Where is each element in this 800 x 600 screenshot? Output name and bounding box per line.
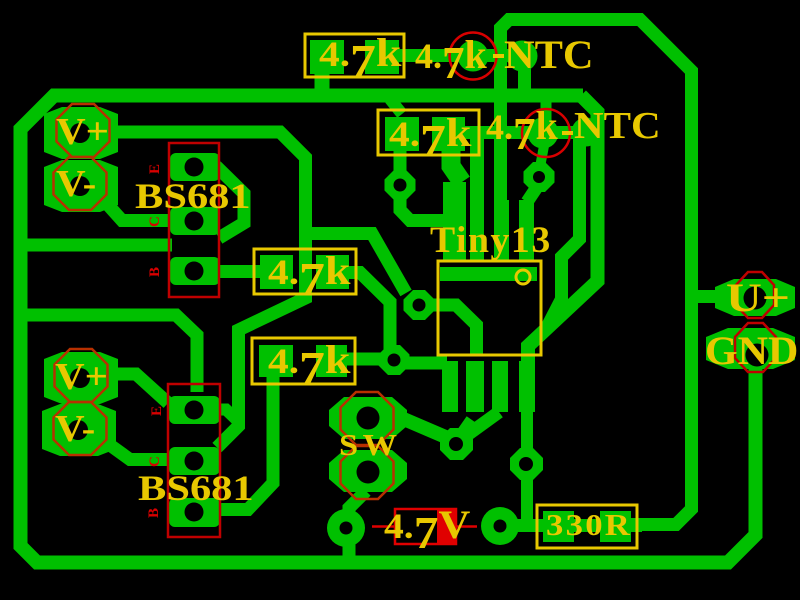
pad Tiny13 bar B from NTC2 horizontal <box>470 133 484 261</box>
pad SW 2 octagon <box>329 450 407 492</box>
pad GND octagon <box>706 328 795 369</box>
wire E1-C1 U loop <box>216 166 244 238</box>
svg-text:BS681: BS681 <box>138 468 254 508</box>
wire U+ riser branch to U+ pad <box>689 290 718 303</box>
pad NTC2 k <box>528 118 559 149</box>
wire ground/border ring top+left+bottom+right <box>21 96 756 563</box>
wire V+ top chain: pad to long vertical to C2 pad <box>110 132 306 448</box>
pad BS681#2 B <box>169 498 220 527</box>
wire V-2 tail to C2 pad <box>103 440 172 460</box>
outline SW2 red octagon <box>341 446 394 499</box>
svg-text:U+: U+ <box>726 275 790 319</box>
wire via2 arm to bar1 <box>404 357 447 370</box>
via V2 under R4 <box>379 345 410 375</box>
wire NTC2 pad2b chain down to S-bend diagonal <box>546 135 580 329</box>
via V6 left of Tiny13 <box>404 290 435 320</box>
pad R1 left <box>310 40 344 74</box>
pad R3 left <box>260 255 293 289</box>
wire V-1 tail to C1 pad <box>100 196 173 221</box>
wire R3 right pad chain down to via2 <box>349 273 390 351</box>
outline V+2 red octagon <box>55 349 108 402</box>
pad Tiny13 interior pin row bar <box>440 267 537 281</box>
wire chain from V+ vertical to via6 <box>305 234 406 294</box>
outline V-2 red octagon <box>54 402 107 455</box>
outline SW1 red octagon <box>341 392 394 445</box>
svg-text:V-: V- <box>55 407 95 449</box>
wire via1 arm to Tiny13 bar A <box>400 196 447 221</box>
hole via V5 <box>519 457 533 471</box>
wire E2 pad stub to V+ chain <box>218 410 239 422</box>
pad R2 left <box>385 117 419 151</box>
hole BS681#2 C <box>185 452 204 471</box>
outline zener D1 body <box>395 509 456 544</box>
pad 330R right <box>600 511 631 542</box>
hole via V3 <box>449 437 463 451</box>
svg-text:NTC: NTC <box>574 104 661 146</box>
pad V- connector 1 octagon <box>44 160 118 212</box>
pad Tiny13 bar D <box>519 200 534 261</box>
hole GND <box>746 344 769 367</box>
hole via V2 <box>388 354 401 367</box>
via V4 under NTC2 <box>524 162 555 192</box>
wire R4 left pad chain down to B2 pad <box>220 376 273 510</box>
svg-text:V-: V- <box>56 162 96 204</box>
svg-text:C: C <box>147 216 163 227</box>
pad R1 right <box>365 40 399 74</box>
hole U+ <box>744 287 767 310</box>
pad Tiny13 bar A <box>443 182 466 261</box>
hole BS681#1 E <box>185 158 204 177</box>
wire border right-top branch to Tiny13 pin 7 via S-bend <box>528 96 598 366</box>
wire R1 left pad stub down to border <box>315 72 330 95</box>
pad Tiny13 below-box bar0 <box>442 361 458 412</box>
outline IC U1 pin1 marker circle <box>516 270 530 284</box>
hole BS681#2 B <box>185 503 204 522</box>
wire net U+ : top rail from U+ riser <box>501 20 692 525</box>
svg-text:C: C <box>147 456 163 467</box>
outline V-1 red octagon <box>54 157 107 210</box>
via V5 above 330R <box>510 448 543 480</box>
wire via6 interior chain to below-box bar1 <box>433 305 477 356</box>
hole V+1 <box>70 123 90 143</box>
svg-text:GND: GND <box>705 328 798 373</box>
wire R2 left pad stub up to border <box>390 99 402 114</box>
outline NTC1 thermistor circle <box>450 33 497 80</box>
outline resistor R3 box <box>254 249 356 294</box>
pad V+ connector 1 octagon <box>44 107 118 159</box>
outline resistor R5 330R box <box>537 505 637 548</box>
outline transistor Q1 BS681 rectangle <box>169 143 219 297</box>
outline zener D1 cathode band <box>437 509 456 544</box>
svg-text:BS681: BS681 <box>135 176 251 216</box>
wire SW pad1 diagonal to via3 <box>392 414 448 438</box>
hole SW2 <box>357 461 380 484</box>
pad SW 1 octagon <box>329 397 407 439</box>
outline IC U1 Tiny13 box <box>438 261 541 355</box>
hole zener pad2 <box>494 520 507 533</box>
pad BS681#2 C <box>169 447 220 475</box>
wire bar3 to via5 <box>521 410 533 450</box>
pad NTC1 k <box>458 41 489 72</box>
pad R4 left <box>259 345 293 377</box>
wire V+2 tail to E2 pad <box>110 374 168 403</box>
hole zener pad1 <box>340 522 353 535</box>
hole BS681#1 C <box>185 212 204 231</box>
wire via3 diagonal to bar1 <box>456 420 472 443</box>
via V1 under R2 <box>385 170 416 200</box>
pad V+ connector 2 octagon <box>44 352 118 404</box>
pad V- connector 2 octagon <box>42 404 116 456</box>
pad 330R left <box>543 511 574 542</box>
outline transistor Q2 BS681 rectangle <box>168 384 220 537</box>
pad R2 right <box>432 117 465 151</box>
wire NTC2 pads connect R2 right pad <box>463 126 582 139</box>
pad NTC2 N <box>572 118 601 147</box>
pad Tiny13 below-box bar3 <box>519 361 535 412</box>
svg-text:E: E <box>147 164 163 174</box>
pad BS681#2 E <box>169 396 220 424</box>
wire NTC2 leader dash <box>562 131 573 135</box>
hole BS681#1 B <box>185 262 204 281</box>
pad NTC1 N <box>507 41 538 72</box>
wire zener pad2 horizontal to 330R left pad <box>490 519 642 532</box>
hole via V6 <box>413 299 426 312</box>
svg-text:B: B <box>147 267 163 277</box>
pad zener left round <box>327 509 365 547</box>
svg-text:B: B <box>146 508 162 518</box>
outline GND red octagon <box>735 323 776 372</box>
svg-text:V+: V+ <box>55 355 108 397</box>
hole V-1 <box>70 176 90 196</box>
wire via4 stub to Tiny13 bar D <box>527 184 539 202</box>
hole BS681#2 E <box>185 401 204 420</box>
pad Tiny13 bar C widening <box>494 200 509 261</box>
wire NTC2 pad1b connector down to via4 <box>540 146 544 167</box>
pad Tiny13 below-box bar1 <box>466 361 484 412</box>
hole via V4 <box>533 171 545 183</box>
pad U+ octagon <box>715 279 795 316</box>
wire via3 diagonal to bar2 <box>459 412 499 441</box>
wire zener D1 left lead <box>372 525 395 528</box>
outline V+1 red octagon <box>57 104 110 157</box>
pad BS681#1 C <box>170 207 220 235</box>
pad Tiny13 below-box bar2 <box>492 361 508 412</box>
svg-text:V+: V+ <box>56 110 109 152</box>
wire zener D1 right lead <box>456 525 477 528</box>
via V3 near SW <box>440 428 473 460</box>
wire B1 pad arm to R3 left pad <box>218 265 262 278</box>
svg-text:330R: 330R <box>546 509 632 543</box>
pad R4 right <box>316 345 347 377</box>
outline resistor R4 box <box>252 338 355 384</box>
pad zener right round <box>481 507 519 545</box>
outline NTC2 thermistor circle <box>522 109 570 157</box>
wire NTC1 leader dash <box>493 54 504 58</box>
wire border tee down to E2 pad <box>22 315 197 392</box>
outline resistor R2 box <box>378 110 479 155</box>
svg-text:E: E <box>149 406 165 416</box>
pad R3 right <box>316 255 349 289</box>
outline resistor R1 box <box>305 34 404 77</box>
wire R4 right pad arm to via2 <box>343 353 382 366</box>
svg-text:NTC: NTC <box>504 32 593 77</box>
svg-text:SW: SW <box>339 428 401 462</box>
hole via V1 <box>394 179 407 192</box>
wire via5 down to zener horizontal <box>521 478 533 526</box>
hole SW1 <box>357 407 380 430</box>
wire NTC1 pad2 tail down to border <box>518 56 531 92</box>
outline U+ red octagon <box>736 272 774 318</box>
wire NTC1 pads connect R1 right pad <box>397 49 522 62</box>
pad BS681#1 B <box>170 257 220 285</box>
wire NTC2 pad1b stub up to border <box>541 100 552 138</box>
svg-text:Tiny13: Tiny13 <box>430 220 552 261</box>
pad BS681#1 E <box>170 153 220 181</box>
wire R2 right pad bar down <box>451 150 462 182</box>
wire SW pad2 chain down to zener pad1 and border <box>349 491 366 557</box>
wire R2 left pad down to via1 <box>394 150 407 172</box>
hole V+2 <box>70 368 90 388</box>
wire border tee to C1 pad <box>22 239 172 252</box>
hole V-2 <box>68 420 88 440</box>
